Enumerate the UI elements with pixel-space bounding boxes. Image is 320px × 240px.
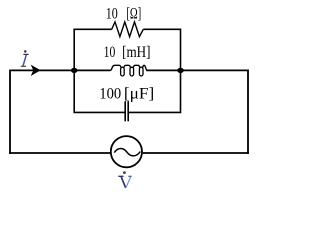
wire main horizontal right segment bbox=[146, 69, 248, 71]
svg-text:10: 10 bbox=[104, 44, 116, 61]
inductor L hump 1 bbox=[110, 65, 121, 70]
wire left vertical of outer loop bbox=[9, 70, 11, 154]
node right junction bbox=[177, 68, 184, 73]
wire main horizontal top-left segment bbox=[10, 69, 110, 71]
V left stroke bbox=[121, 177, 126, 188]
inductor L hump 3 bbox=[133, 65, 140, 67]
wire capacitor branch left bbox=[74, 70, 125, 112]
label I-dot (current) bbox=[21, 54, 29, 66]
source V AC circle bbox=[111, 136, 142, 167]
resistor R zigzag bbox=[112, 22, 144, 37]
inductor loop 1 bbox=[121, 67, 125, 76]
node left junction bbox=[71, 68, 78, 73]
inductor loop 3 bbox=[139, 67, 143, 76]
inductor loop 2 bbox=[130, 67, 134, 76]
svg-text:10: 10 bbox=[106, 5, 118, 22]
capacitor C right plate bbox=[127, 101, 129, 121]
wire bottom left segment bbox=[9, 152, 110, 154]
wire resistor branch left riser bbox=[74, 29, 112, 70]
V right stroke bbox=[126, 177, 131, 188]
V top-right serif bbox=[128, 175, 131, 177]
I stem bbox=[23, 55, 26, 66]
current arrow on wire bbox=[32, 66, 40, 75]
svg-text:[Ω]: [Ω] bbox=[126, 5, 141, 22]
wire bottom right segment bbox=[143, 152, 249, 154]
inductor L hump 4 bbox=[143, 65, 148, 70]
svg-text:[mH]: [mH] bbox=[122, 44, 150, 61]
wire capacitor branch right bbox=[128, 70, 180, 112]
wire right vertical of outer loop bbox=[247, 70, 249, 154]
wire resistor branch right riser bbox=[143, 29, 180, 70]
label V-dot (source voltage) bbox=[118, 176, 131, 188]
I bottom serif bbox=[21, 65, 26, 67]
capacitor C left plate bbox=[124, 101, 126, 121]
svg-text:100: 100 bbox=[99, 85, 121, 102]
inductor L hump 2 bbox=[124, 65, 131, 67]
source sine wave bbox=[114, 148, 140, 155]
svg-text:[μF]: [μF] bbox=[124, 85, 154, 102]
I top serif bbox=[23, 53, 28, 55]
V top-left serif bbox=[118, 175, 123, 177]
